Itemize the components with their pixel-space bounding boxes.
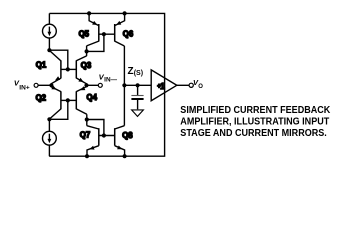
transistor Q8 <box>115 126 125 157</box>
junction node Z <box>122 83 126 87</box>
svg-text:Q1: Q1 <box>36 61 47 70</box>
svg-text:Q6: Q6 <box>123 30 134 39</box>
transistor Q5 <box>87 13 99 46</box>
wire CS1 top lead <box>48 13 50 24</box>
transistor Q6 <box>115 13 125 46</box>
svg-text:(S): (S) <box>134 70 143 77</box>
svg-text:Q8: Q8 <box>122 131 133 140</box>
svg-text:1: 1 <box>160 82 165 91</box>
junction dot VIN+ node <box>49 83 53 87</box>
terminal VIN+ <box>34 83 38 87</box>
svg-text:AMPLIFIER, ILLUSTRATING INPUT: AMPLIFIER, ILLUSTRATING INPUT <box>180 117 330 128</box>
current source I1 <box>43 24 57 38</box>
junction dot rail Q7 <box>85 154 89 158</box>
wire supply rails top right bottom <box>49 13 164 156</box>
capacitor C bottom plate <box>131 98 143 100</box>
op-amp buffer +1 <box>151 70 177 101</box>
ground <box>132 110 144 117</box>
wire Q7 Q8 base wire <box>99 135 115 137</box>
wire CS2 top lead from N2 <box>48 119 50 131</box>
wire Q1 Q3 base wire <box>61 68 76 70</box>
terminal VIN- <box>98 83 102 87</box>
svg-text:Z: Z <box>128 66 134 77</box>
wire CS2 to bottom rail <box>48 145 50 156</box>
junction dot Q7 Q8 base <box>102 133 106 137</box>
junction dot Q5 tie <box>85 49 89 53</box>
junction dot Q2 Q4 base <box>66 98 70 102</box>
terminal VO <box>189 83 193 87</box>
wire mirror tie Q5 base collector <box>87 34 104 51</box>
wire buffer output <box>177 84 189 86</box>
svg-text:Q5: Q5 <box>79 30 90 39</box>
wire Q6 Q8 collectors through node Z <box>123 46 125 126</box>
svg-text:Q3: Q3 <box>81 61 92 70</box>
svg-text:STAGE AND CURRENT MIRRORS.: STAGE AND CURRENT MIRRORS. <box>180 128 327 139</box>
svg-text:SIMPLIFIED CURRENT FEEDBACK: SIMPLIFIED CURRENT FEEDBACK <box>180 105 330 116</box>
current source I2 <box>43 131 57 145</box>
wire N2 tie to Q2 Q4 bases <box>49 100 67 119</box>
transistor Q1 <box>50 51 61 86</box>
wire VIN+ to node <box>38 84 51 86</box>
junction dot capacitor tap <box>136 83 140 87</box>
junction node N1 <box>47 48 51 52</box>
junction dot VIN- node <box>84 83 88 87</box>
wire N1 tie to Q1 Q3 bases <box>49 50 67 69</box>
capacitor C top plate <box>131 95 143 97</box>
junction dot Q7 tie <box>85 117 89 121</box>
junction dot rail Q6 <box>123 11 127 15</box>
transistor Q3 <box>76 56 86 85</box>
wire CS1 to node N1 <box>48 38 50 50</box>
svg-text:Q4: Q4 <box>87 93 98 102</box>
svg-text:Q2: Q2 <box>36 93 47 102</box>
svg-text:Q7: Q7 <box>80 130 90 139</box>
wire mirror tie Q7 base collector <box>87 120 104 136</box>
wire VIN- node to terminal <box>87 84 99 86</box>
junction dot Q5 Q6 base <box>102 32 106 36</box>
junction node N2 <box>47 117 51 121</box>
svg-text:IN—: IN— <box>104 77 118 84</box>
wire Q4 Q7 collector link <box>86 114 88 125</box>
wire node Z row to buffer <box>124 84 151 86</box>
transistor Q7 <box>87 126 99 157</box>
svg-text:O: O <box>198 84 203 90</box>
junction dot rail Q8 <box>123 154 127 158</box>
junction dot rail Q5 <box>87 11 91 15</box>
capacitor C lead bottom <box>137 100 139 109</box>
wire Q2 Q4 base wire <box>61 99 76 101</box>
wire Q5 Q6 base wire <box>99 33 115 35</box>
junction dot Q1 Q3 base <box>66 67 70 71</box>
wire Q3 Q5 collector link <box>86 46 88 56</box>
capacitor C lead top <box>137 85 139 95</box>
svg-text:IN+: IN+ <box>19 84 30 91</box>
transistor Q4 <box>76 85 87 114</box>
transistor Q2 <box>50 85 61 119</box>
